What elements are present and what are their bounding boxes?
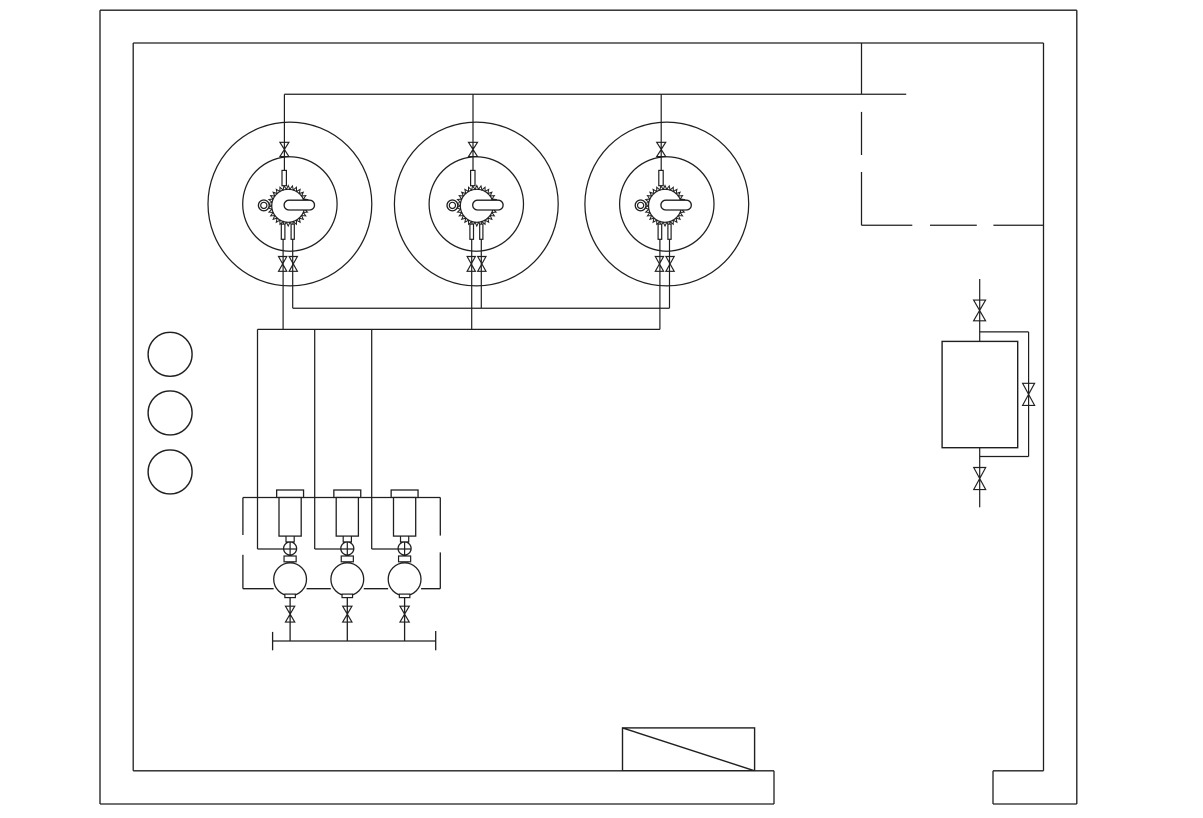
digester tank T2 inner circle	[429, 157, 523, 251]
valve outlet right tank T2	[478, 257, 486, 272]
door jamb left	[773, 771, 775, 804]
pipe drop to exchanger	[979, 279, 981, 341]
nozzle stub top tank T2	[471, 170, 475, 185]
pump pit outline left edge	[242, 498, 244, 536]
pump P3 neck	[401, 536, 409, 542]
mixer gear M2	[457, 186, 497, 227]
valve bypass	[1023, 383, 1035, 405]
pipe tee to bypass top	[980, 331, 1029, 333]
pump P2 coupling circle	[341, 542, 354, 555]
pump P2 motor body	[336, 498, 358, 537]
pipe outlet right tank T2	[480, 239, 482, 308]
pipe suction elbow pump P1	[258, 548, 297, 550]
valve outlet left tank T3	[655, 257, 663, 272]
mixer arm capsule M2	[473, 200, 503, 210]
digester tank T1 inner circle	[243, 157, 337, 251]
valve feed tank T2	[469, 142, 478, 156]
valve discharge pump P1	[285, 606, 294, 622]
wall outer right	[1076, 10, 1078, 804]
mixer arm capsule M1	[284, 200, 314, 210]
nozzle stub top tank T3	[659, 170, 663, 185]
valve discharge pump P3	[400, 606, 409, 622]
digester tank T3 inner circle	[620, 157, 714, 251]
pipe suction elbow pump P3	[372, 548, 411, 550]
partition dashed horizontal segment 1	[862, 224, 913, 226]
wall outer left	[99, 10, 101, 804]
pipe riser to pump P2	[314, 329, 316, 549]
nozzle stub bottom-left tank T3	[658, 224, 662, 239]
digester tank T3 outer circle	[585, 122, 749, 286]
stair ramp rectangle	[623, 728, 755, 771]
partition dashed vertical segment 2	[861, 172, 863, 225]
pump P3 motor body	[394, 498, 416, 537]
wall outer top	[100, 9, 1077, 11]
manifold end tick right	[435, 631, 437, 650]
mixer drive ring M3	[635, 200, 646, 211]
pump P3 coupling circle	[398, 542, 411, 555]
pump pit outline bottom edge	[243, 588, 274, 590]
mixer gear M3	[645, 186, 685, 227]
pipe outlet right tank T3	[669, 239, 671, 308]
pipe manifold lower	[258, 328, 660, 330]
valve feed tank T3	[657, 142, 666, 156]
stair ramp diagonal	[623, 728, 755, 771]
pipe outlet left tank T1	[282, 239, 284, 329]
valve exchanger inlet	[974, 300, 986, 321]
pump P3 coupling axis line	[404, 542, 406, 556]
pump P1 motor cap	[277, 490, 304, 498]
pump P1 flange	[284, 556, 296, 562]
pipe bypass vertical	[1028, 332, 1030, 457]
pipe riser to pump P3	[371, 329, 373, 549]
floor opening circle 3	[148, 450, 192, 494]
valve outlet left tank T1	[279, 257, 287, 272]
pipe feed drop tank T3	[660, 94, 662, 170]
digester tank T2 outer circle	[394, 122, 558, 286]
mixer gear M1	[268, 186, 308, 227]
door jamb right	[992, 771, 994, 804]
nozzle stub bottom-right tank T3	[668, 224, 671, 239]
pump P1 discharge flange	[285, 594, 296, 598]
pump P1 motor body	[279, 498, 301, 537]
pipe feed drop tank T2	[472, 94, 474, 170]
pump P2 neck	[343, 536, 351, 542]
partition wall solid segment	[861, 43, 863, 94]
wall inner left	[132, 43, 134, 771]
pump P1 neck	[286, 536, 294, 542]
pipe outlet left tank T2	[471, 239, 473, 329]
wall inner bottom right segment	[993, 770, 1044, 772]
wall outer bottom right segment	[993, 803, 1077, 805]
nozzle stub bottom-right tank T1	[291, 224, 294, 239]
pipe feed drop tank T1	[283, 94, 285, 170]
nozzle stub bottom-left tank T1	[281, 224, 285, 239]
mixer drive ring M1	[258, 200, 269, 211]
wall inner top	[133, 42, 1043, 44]
valve discharge pump P2	[343, 606, 352, 622]
pump P2 motor cap	[334, 490, 361, 498]
pipe riser to pump P1	[257, 329, 259, 549]
nozzle stub bottom-left tank T2	[470, 224, 474, 239]
pipe bypass bottom	[980, 456, 1029, 458]
mixer drive ring M2	[447, 200, 458, 211]
pump P1 casing ball	[274, 563, 307, 596]
pump P2 casing ball	[331, 563, 364, 596]
pump P2 discharge flange	[342, 594, 353, 598]
partition dashed vertical segment 1	[861, 112, 863, 155]
pump P2 flange	[341, 556, 353, 562]
pipe suction elbow pump P2	[315, 548, 354, 550]
wall inner bottom left segment	[133, 770, 774, 772]
pump pit outline right edge	[439, 498, 441, 536]
pump P3 motor cap	[391, 490, 418, 498]
digester tank T1 outer circle	[208, 122, 372, 286]
wall inner right	[1043, 43, 1045, 771]
partition dashed horizontal segment 2	[930, 224, 977, 226]
pipe manifold upper	[293, 307, 670, 309]
pump P3 flange	[399, 556, 411, 562]
pipe header top	[284, 93, 906, 95]
pump P1 coupling circle	[284, 542, 297, 555]
valve feed tank T1	[280, 142, 289, 156]
pump P3 discharge flange	[399, 594, 410, 598]
pipe exchanger outlet	[979, 448, 981, 508]
pipe discharge pump P3	[404, 598, 406, 642]
pump pit outline top edge	[243, 497, 277, 499]
valve outlet right tank T3	[666, 257, 674, 272]
pipe discharge pump P2	[346, 598, 348, 642]
valve outlet left tank T2	[467, 257, 475, 272]
valve exchanger outlet	[974, 468, 986, 490]
partition dashed horizontal segment 3	[993, 224, 1043, 226]
wall outer bottom left segment	[100, 803, 774, 805]
heat exchanger tank	[942, 341, 1018, 447]
mixer arm capsule M3	[661, 200, 691, 210]
valve outlet right tank T1	[289, 257, 297, 272]
nozzle stub top tank T1	[282, 170, 286, 185]
floor opening circle 2	[148, 391, 192, 435]
pump P3 casing ball	[388, 563, 421, 596]
manifold end tick left	[272, 632, 274, 650]
pipe discharge pump P1	[289, 598, 291, 642]
pipe manifold discharge	[273, 640, 436, 642]
pump P2 coupling axis line	[346, 542, 348, 556]
nozzle stub bottom-right tank T2	[480, 224, 483, 239]
pipe outlet left tank T3	[659, 239, 661, 329]
pipe outlet right tank T1	[292, 239, 294, 308]
pump P1 coupling axis line	[289, 542, 291, 556]
floor opening circle 1	[148, 332, 192, 376]
